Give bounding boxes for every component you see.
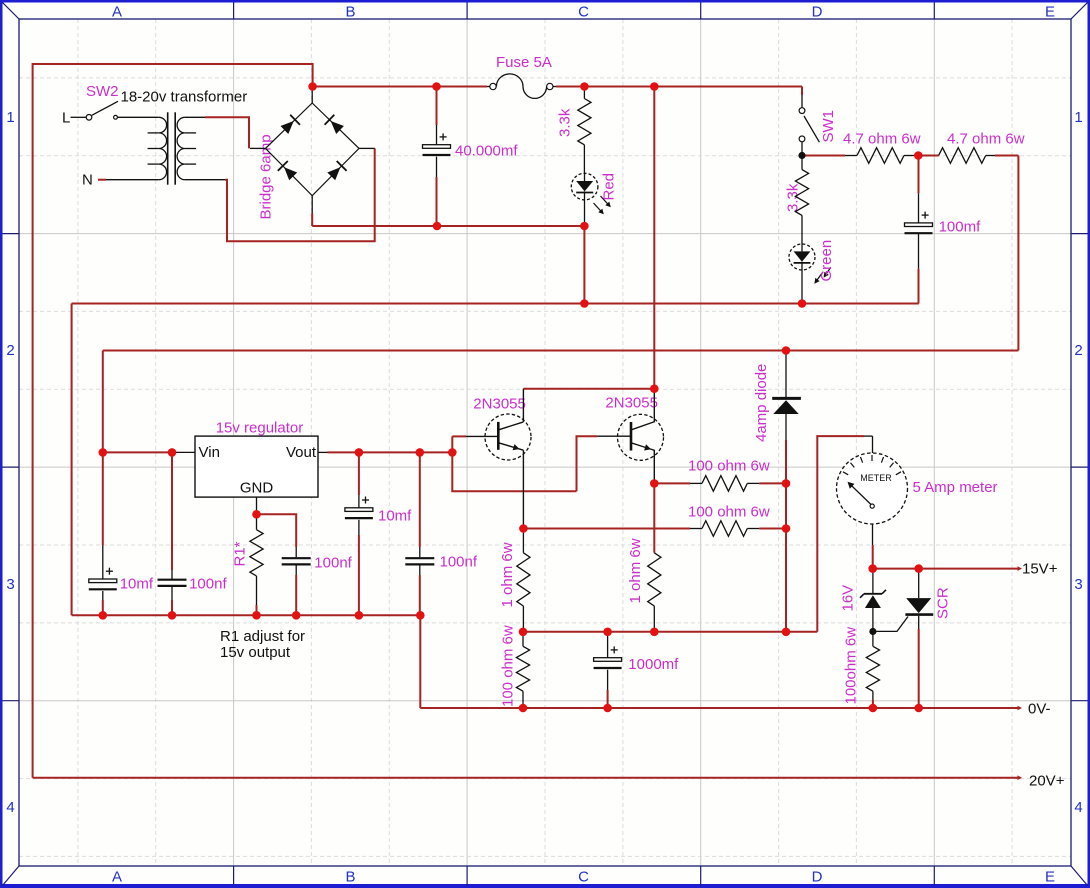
wire GND elbow to 100nf mid [257,514,297,547]
wire regulator Vin drop x=102.8 [102,351,104,546]
wire meter top feed x=817.3 [817,436,864,632]
wire 40.000mf bottom lead [436,177,438,226]
frame tick marks [233,3,235,20]
wire left vertical x=71.6 [71,304,73,616]
svg-text:N: N [82,172,93,189]
transformer T1 core [167,112,169,184]
bridge diode lower-right [327,167,340,180]
wire SCR cathode to 0V rail [918,629,920,708]
wire SW1 drop [801,87,803,96]
svg-text:100 ohm 6w: 100 ohm 6w [499,625,516,707]
wire 100nf left leads [171,452,173,570]
svg-text:2N3055: 2N3055 [473,396,526,413]
wire 100mf bottom drop [918,269,920,304]
svg-text:Green: Green [818,240,835,282]
bridge diode lower-left [284,167,297,180]
LED Red D1 [571,173,598,200]
svg-text:4.7 ohm 6w: 4.7 ohm 6w [947,131,1025,148]
svg-text:B: B [345,4,355,21]
bridge diode upper-right [331,121,344,134]
wire 20V+ rail [33,777,1019,779]
svg-text:1000mf: 1000mf [628,656,679,673]
capacitor 1000mf [607,632,609,658]
svg-text:3: 3 [6,576,14,593]
capacitor 10mf left [102,545,104,579]
svg-text:E: E [1045,4,1055,21]
svg-text:100nf: 100nf [189,576,227,593]
svg-text:METER: METER [860,473,892,483]
wire long horizontal y=350.5 to regulator input [103,350,1019,352]
svg-text:4: 4 [6,799,14,816]
wire long horizontal y=303.5 [72,303,919,305]
svg-text:100 ohm 6w: 100 ohm 6w [688,504,770,521]
svg-text:1 ohm 6w: 1 ohm 6w [627,538,644,603]
svg-text:10mf: 10mf [378,508,412,525]
svg-text:Vin: Vin [199,444,220,461]
switch SW2 [71,116,87,118]
LED Green D2 [789,244,815,270]
svg-text:1: 1 [6,109,14,126]
capacitor 100nf right [405,557,434,559]
svg-text:R1 adjust for: R1 adjust for [220,628,305,645]
wire 1000mf bottom lead [607,690,609,708]
svg-text:B: B [345,869,355,886]
svg-text:Vout: Vout [286,444,317,461]
junction zener-SCR gate (black) [869,628,876,635]
wire drop x=420.3 to 0V rail [419,615,421,708]
wire R1 bottom lead [256,605,258,615]
svg-text:2: 2 [6,342,14,359]
frame corner diagonals [3,3,20,20]
wire N input tick [98,179,106,181]
svg-text:1: 1 [1074,109,1082,126]
capacitor 100nf left [158,579,187,581]
wire 100mf top lead [918,156,920,194]
capacitor 100nf mid [282,557,311,559]
wire top-left loop from bridge output to 20V+ rail [33,64,313,778]
capacitor 10mf mid [358,495,360,508]
svg-text:100 ohm 6w: 100 ohm 6w [688,458,770,475]
transformer T1 primary winding [159,117,167,179]
wire collector link y=388.7 [523,388,654,390]
svg-text:3.3k: 3.3k [785,183,802,212]
svg-text:A: A [112,4,122,21]
wire Vin line y=452.4 [103,451,176,453]
svg-text:16V: 16V [840,585,857,612]
svg-text:D: D [812,4,823,21]
capacitor 100mf [918,193,920,223]
svg-text:SW1: SW1 [820,110,837,143]
svg-text:100mf: 100mf [939,219,982,236]
svg-text:GND: GND [240,480,274,497]
junction SW1 bottom (black) [798,152,805,159]
svg-text:3.3k: 3.3k [557,108,574,137]
svg-text:15v output: 15v output [220,644,291,661]
svg-text:3: 3 [1074,576,1082,593]
svg-text:4: 4 [1074,799,1082,816]
wire meter bottom to 15V+ line [872,545,874,569]
svg-text:2N3055: 2N3055 [605,395,658,412]
svg-text:15V+: 15V+ [1022,561,1058,578]
svg-text:Fuse 5A: Fuse 5A [496,54,552,71]
grid lines (decorative) [77,19,79,866]
transistor Q2 2N3055 [618,414,664,460]
switch SW1 [801,95,803,108]
wire Vout line y=452.4 [328,451,453,453]
svg-text:15v regulator: 15v regulator [216,420,304,437]
svg-text:100nf: 100nf [314,555,352,572]
svg-text:100ohm 6w: 100ohm 6w [843,627,860,705]
capacitor 40.000mf [436,125,438,145]
wire Q2 base feed [577,436,598,491]
wire x=786 diode to rail [785,440,787,632]
SCR gate wire [876,617,908,632]
meter M1 [864,435,873,437]
svg-text:Red: Red [601,173,618,201]
svg-text:20V+: 20V+ [1029,773,1065,790]
fuse F1 [487,86,490,88]
wire x=655 down to 1 ohm [653,483,655,552]
wire SW1 output y=155.5 [802,155,845,157]
wire 40.000mf top lead [436,87,438,126]
svg-text:SW2: SW2 [86,83,119,100]
wire bridge bottom to cap bottom y=226 [312,225,584,227]
svg-text:10mf: 10mf [120,576,154,593]
transistor Q1 2N3055 [485,414,531,460]
wire 15V+ line [873,568,1019,570]
junction dots [308,82,317,91]
wire Q1 emitter resistor row y=528.5 [523,528,690,530]
wire 10mf mid leads [358,452,360,495]
bridge diode upper-left [281,121,294,134]
svg-text:100nf: 100nf [440,554,478,571]
svg-text:2: 2 [1074,342,1082,359]
svg-text:E: E [1045,869,1055,886]
svg-text:C: C [578,4,589,21]
svg-text:4amp diode: 4amp diode [753,364,770,442]
svg-text:5 Amp meter: 5 Amp meter [913,479,998,496]
wire Q1 base feed [452,436,576,491]
bridge rectifier diamond [266,103,360,196]
wire rail y=631.8 [523,631,817,633]
regulator U1 box [195,436,318,497]
wire transformer secondary bottom loop [225,148,375,241]
svg-text:18-20v transformer: 18-20v transformer [121,89,248,106]
wire long vertical x=654 fuse to transistors [653,87,655,389]
svg-text:40.000mf: 40.000mf [455,143,518,160]
transformer T1 secondary winding [177,117,185,179]
svg-text:A: A [112,869,122,886]
svg-text:1 ohm 6w: 1 ohm 6w [499,542,516,607]
wire red LED bottom drop [583,226,585,304]
wire ground rail y=615.3 [72,614,421,616]
svg-text:D: D [812,869,823,886]
wire Q2 emitter resistor row y=483.4 [654,482,690,484]
svg-text:L: L [62,110,70,127]
wire 0V- rail [420,707,1019,709]
svg-text:4.7 ohm 6w: 4.7 ohm 6w [843,131,921,148]
svg-text:0V-: 0V- [1028,701,1051,718]
wire transformer secondary top [205,117,249,148]
wire fuse line y=86.5 [313,86,487,88]
wire 100nf right leads [419,452,421,547]
svg-text:C: C [578,869,589,886]
svg-text:R1*: R1* [232,541,249,566]
svg-text:SCR: SCR [935,587,952,619]
wire zener bottom to 0V rail [872,700,874,708]
wire right vertical x=1018.4 [1017,156,1019,351]
